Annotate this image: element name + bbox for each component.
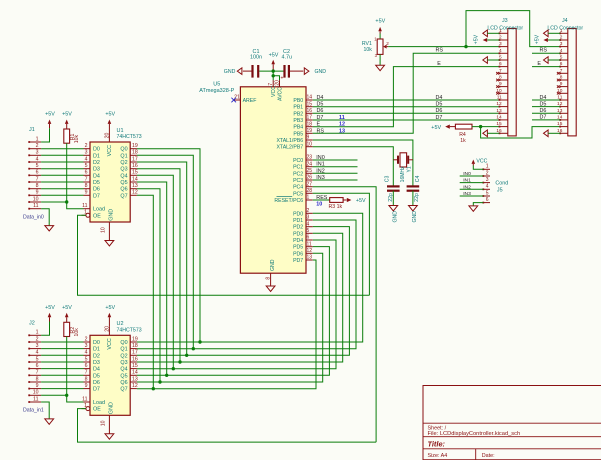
svg-text:22p: 22p: [414, 193, 420, 202]
svg-text:LCD Connector: LCD Connector: [547, 25, 583, 31]
wire PC4 net: [313, 187, 376, 442]
svg-text:6: 6: [307, 235, 310, 241]
svg-text:74HCT573: 74HCT573: [117, 134, 142, 140]
svg-text:15: 15: [307, 101, 313, 107]
svg-text:Q5: Q5: [120, 373, 127, 379]
svg-text:7: 7: [36, 370, 39, 376]
svg-text:PB5: PB5: [293, 131, 303, 137]
svg-text:6: 6: [499, 61, 502, 67]
labels IN0-IN3 (near U5): [316, 155, 324, 181]
svg-text:Q6: Q6: [120, 380, 127, 386]
ground (C4): [409, 206, 419, 223]
svg-text:C4: C4: [415, 176, 421, 183]
svg-text:10: 10: [307, 141, 313, 147]
svg-text:PC5: PC5: [293, 191, 303, 197]
svg-text:R3 1k: R3 1k: [329, 204, 343, 210]
wire RESET to R3: [313, 199, 330, 201]
svg-text:3: 3: [307, 215, 310, 221]
svg-text:8: 8: [266, 277, 272, 280]
node Data_in1: [23, 408, 44, 414]
svg-text:D4: D4: [540, 95, 547, 101]
svg-text:+: +: [281, 75, 284, 81]
svg-text:+5V: +5V: [105, 112, 115, 118]
labels IN0-IN3 (J5): [463, 171, 471, 197]
svg-text:Q0: Q0: [120, 147, 127, 153]
svg-text:+5V: +5V: [105, 305, 115, 311]
svg-text:2: 2: [307, 208, 310, 214]
wire J1 pin1 to +5V: [41, 128, 49, 142]
svg-text:RS: RS: [540, 48, 548, 54]
svg-text:4: 4: [499, 48, 502, 54]
wires data bus to U5 PD0-PD7: [137, 213, 363, 388]
svg-text:PB2: PB2: [293, 111, 303, 117]
svg-text:Data_in1: Data_in1: [23, 408, 44, 414]
capacitor C1 100n: [250, 49, 262, 77]
svg-text:PB1: PB1: [293, 105, 303, 111]
svg-text:J4: J4: [562, 18, 568, 24]
svg-text:Q5: Q5: [120, 180, 127, 186]
svg-text:D0: D0: [93, 340, 100, 346]
svg-text:D6: D6: [93, 187, 100, 193]
power +5V (R2): [62, 305, 72, 323]
svg-text:100n: 100n: [250, 55, 262, 61]
svg-text:Q7: Q7: [120, 387, 127, 393]
svg-text:J1: J1: [29, 127, 35, 133]
wire R2 to Load2 net: [66, 337, 68, 396]
gnd flag (C1): [224, 68, 242, 75]
svg-text:4: 4: [36, 350, 39, 356]
svg-text:D4: D4: [93, 367, 100, 373]
svg-text:J3: J3: [502, 18, 508, 24]
svg-text:9: 9: [36, 190, 39, 196]
svg-text:Q0: Q0: [120, 340, 127, 346]
svg-text:15: 15: [496, 121, 502, 127]
svg-text:2: 2: [36, 336, 39, 342]
junction V0 net: [464, 45, 467, 48]
svg-text:+5V: +5V: [45, 305, 55, 311]
svg-text:13: 13: [307, 255, 313, 261]
wires IN0-IN3 nets (PC0-PC3): [313, 160, 358, 180]
latch U2 74HCT573: [82, 321, 142, 434]
label 12 (blue): [339, 122, 345, 128]
svg-text:5: 5: [85, 163, 88, 169]
svg-text:D4: D4: [317, 95, 324, 101]
svg-text:6: 6: [36, 363, 39, 369]
svg-text:10k: 10k: [74, 134, 80, 143]
junction Load net (R1/J1.10): [65, 200, 68, 203]
svg-text:74HCT573: 74HCT573: [117, 328, 142, 334]
svg-text:D6: D6: [436, 108, 443, 114]
svg-text:Q7: Q7: [120, 193, 127, 199]
svg-text:+5V: +5V: [431, 125, 441, 131]
label 13 (blue): [339, 128, 345, 134]
ground (U5 GND pin 8): [266, 286, 275, 291]
svg-text:PD1: PD1: [293, 218, 303, 224]
gnd flag (J4 pin 5): [544, 57, 561, 64]
label RS (near U5): [317, 128, 325, 134]
junction +5V / VCC: [272, 69, 275, 72]
wire R3 to +5V: [343, 199, 346, 201]
wires D4-D7 nets (PB0-PB3 to J3 pins 11-14): [313, 100, 500, 120]
label RS (near J3): [436, 48, 444, 54]
svg-text:LCD Connector: LCD Connector: [487, 25, 523, 31]
svg-text:18: 18: [132, 343, 138, 349]
svg-text:Title:: Title:: [428, 439, 446, 448]
svg-text:D5: D5: [93, 373, 100, 379]
svg-text:IN1: IN1: [316, 162, 324, 168]
svg-text:PD6: PD6: [293, 251, 303, 257]
wire Load net to U1 pin 11: [67, 202, 84, 209]
svg-text:2: 2: [386, 41, 389, 46]
svg-text:11: 11: [33, 203, 38, 209]
svg-text:PB0: PB0: [293, 98, 303, 104]
wire J2 pin1 to +5V: [41, 322, 49, 336]
svg-text:4.7u: 4.7u: [282, 55, 293, 61]
svg-text:1: 1: [307, 195, 310, 201]
gnd flag (J3 pin 16): [483, 130, 500, 137]
wire U2 OE to PC4 net: [78, 409, 377, 443]
crystal Y1 16MHz: [393, 153, 413, 183]
svg-text:11: 11: [33, 396, 38, 402]
svg-text:GND: GND: [393, 211, 399, 223]
svg-text:GND: GND: [315, 69, 327, 75]
svg-text:2: 2: [85, 336, 88, 342]
svg-text:PD3: PD3: [293, 231, 303, 237]
svg-text:Data_in0: Data_in0: [23, 214, 44, 220]
svg-text:10k: 10k: [74, 328, 80, 337]
label 10 (blue): [316, 202, 322, 208]
svg-text:17: 17: [307, 115, 313, 121]
svg-text:13: 13: [339, 128, 345, 134]
ground (C3): [389, 206, 399, 223]
svg-text:GND: GND: [108, 402, 114, 414]
svg-text:1: 1: [36, 330, 39, 336]
svg-text:IN2: IN2: [463, 184, 471, 190]
svg-text:11: 11: [307, 241, 312, 247]
wire PC5 net: [313, 193, 370, 295]
svg-text:8: 8: [85, 183, 88, 189]
svg-text:D6: D6: [93, 380, 100, 386]
svg-text:7: 7: [560, 68, 563, 74]
svg-text:U1: U1: [117, 128, 124, 134]
svg-text:10: 10: [316, 202, 322, 208]
svg-text:12: 12: [132, 383, 138, 389]
svg-text:RESET/PC6: RESET/PC6: [274, 198, 303, 204]
svg-text:3: 3: [85, 343, 88, 349]
svg-text:D2: D2: [93, 353, 100, 359]
wire J1 pin10 to Load net: [41, 201, 67, 203]
wires J4 pins 11-14 D4-D7: [532, 100, 560, 120]
svg-text:3: 3: [36, 343, 39, 349]
svg-text:D5: D5: [436, 102, 443, 108]
title block: [423, 386, 601, 460]
svg-text:6: 6: [36, 170, 39, 176]
svg-text:VCC: VCC: [107, 338, 113, 349]
svg-text:9: 9: [307, 135, 310, 141]
ground (J2 pin 11): [45, 419, 54, 424]
svg-text:12: 12: [307, 248, 313, 254]
svg-text:PD0: PD0: [293, 211, 303, 217]
wire R1 to Load net: [66, 143, 68, 202]
svg-text:5: 5: [307, 228, 310, 234]
connector J4 LCD: [547, 18, 583, 136]
svg-text:RS: RS: [317, 128, 325, 134]
svg-text:GND: GND: [224, 69, 236, 75]
svg-text:11: 11: [82, 203, 87, 209]
svg-text:+5V: +5V: [45, 112, 55, 118]
svg-text:IN2: IN2: [316, 168, 324, 174]
svg-text:VCC: VCC: [476, 159, 487, 165]
svg-text:25: 25: [307, 168, 313, 174]
resistor R1 10k: [64, 129, 80, 143]
label RS (J4): [540, 48, 548, 54]
wire RV1 wiper to J3 pin3 (V0 net): [388, 46, 499, 48]
svg-text:2: 2: [486, 170, 489, 176]
power +5V (J2 pin 1): [45, 305, 55, 322]
svg-text:AVCC: AVCC: [277, 87, 283, 101]
svg-text:10: 10: [101, 420, 107, 426]
wire J4 pin6 E: [532, 66, 560, 68]
svg-text:XTAL2/PB7: XTAL2/PB7: [276, 145, 303, 151]
power +5V (U5 supply): [269, 52, 279, 71]
svg-text:7: 7: [268, 83, 274, 86]
svg-text:10: 10: [33, 390, 39, 396]
svg-text:D6: D6: [540, 108, 547, 114]
potentiometer RV1 10k: [362, 34, 389, 66]
wire RS net (PB5 to J3 pin4): [313, 53, 500, 133]
svg-text:6: 6: [85, 363, 88, 369]
svg-text:20: 20: [104, 326, 110, 332]
svg-text:18: 18: [307, 121, 313, 127]
wire VCC stem: [272, 71, 280, 80]
svg-text:D1: D1: [93, 347, 100, 353]
svg-text:4: 4: [36, 156, 39, 162]
svg-text:D5: D5: [317, 102, 324, 108]
svg-text:Q2: Q2: [120, 353, 127, 359]
power +5V (J3 pin 2): [474, 34, 500, 44]
svg-text:10: 10: [101, 227, 107, 233]
svg-text:Date:: Date:: [482, 453, 495, 459]
resistor R3 1k: [329, 198, 344, 211]
svg-text:6: 6: [85, 170, 88, 176]
svg-text:D3: D3: [93, 360, 100, 366]
svg-text:20: 20: [104, 133, 110, 139]
svg-text:GND: GND: [270, 259, 276, 271]
svg-text:5: 5: [486, 190, 489, 196]
svg-text:7: 7: [85, 176, 88, 182]
gnd flag (C2): [304, 68, 326, 75]
svg-text:11: 11: [339, 115, 345, 121]
svg-text:PD5: PD5: [293, 245, 303, 251]
svg-text:9: 9: [499, 81, 502, 87]
label 11 (blue): [339, 115, 345, 121]
power +5V (J1 pin 1): [45, 112, 55, 129]
svg-text:3: 3: [36, 150, 39, 156]
svg-text:IN0: IN0: [316, 155, 324, 161]
svg-text:Cond: Cond: [495, 181, 508, 187]
svg-text:Q1: Q1: [120, 153, 127, 159]
ground (J5 pin 6): [469, 206, 478, 211]
svg-text:12: 12: [496, 101, 502, 107]
svg-text:9: 9: [36, 383, 39, 389]
junction backlight net: [479, 125, 482, 128]
svg-text:PD4: PD4: [293, 238, 303, 244]
svg-text:Q4: Q4: [120, 173, 127, 179]
svg-text:D5: D5: [540, 101, 547, 107]
svg-text:3: 3: [486, 177, 489, 183]
svg-text:+5V: +5V: [534, 34, 540, 44]
power +5V (R3): [346, 198, 366, 204]
svg-text:9: 9: [85, 190, 88, 196]
svg-text:XTAL1/PB6: XTAL1/PB6: [276, 138, 303, 144]
svg-text:PD7: PD7: [293, 258, 303, 264]
svg-text:E: E: [317, 122, 321, 128]
svg-text:7: 7: [85, 370, 88, 376]
svg-text:D5: D5: [93, 180, 100, 186]
latch U1 74HCT573: [82, 128, 142, 241]
svg-text:9: 9: [560, 81, 563, 87]
gnd flag (J3 pin 5): [483, 57, 500, 64]
svg-text:Q3: Q3: [120, 360, 127, 366]
svg-text:27: 27: [307, 181, 313, 187]
svg-text:8: 8: [36, 376, 39, 382]
wire J5 pin6 to ground: [473, 203, 483, 206]
svg-text:D4: D4: [436, 95, 443, 101]
svg-text:5: 5: [85, 356, 88, 362]
svg-text:Q2: Q2: [120, 160, 127, 166]
svg-text:24: 24: [307, 161, 313, 167]
wire Load2 net to U2 pin 11: [67, 395, 84, 402]
power +5V (U1 VCC): [105, 112, 115, 134]
junction Load2 net (R2/J2.10): [65, 394, 68, 397]
wire E net (PB4 to J3 pin6): [313, 67, 500, 127]
power +5V (R4): [431, 125, 455, 131]
svg-text:4: 4: [486, 184, 489, 190]
power VCC (J5 pin 1): [472, 159, 488, 166]
wires U1 Q0-Q7 to data bus: [137, 149, 200, 389]
svg-text:2: 2: [85, 143, 88, 149]
power +5V (J4 pin 2): [534, 34, 560, 44]
labels D4-D7 (J4): [540, 95, 547, 121]
wire XTAL1 to crystal right: [313, 140, 413, 186]
svg-text:Load: Load: [93, 207, 105, 213]
svg-text:D7: D7: [436, 115, 443, 121]
svg-text:+5V: +5V: [62, 112, 72, 118]
svg-text:VCC: VCC: [271, 86, 277, 97]
svg-text:RES: RES: [316, 195, 327, 201]
svg-text:Q1: Q1: [120, 347, 127, 353]
svg-text:+5V: +5V: [62, 305, 72, 311]
wire V0 loop to J4 pin3: [466, 11, 560, 47]
ground (J1 pin 11): [45, 226, 54, 231]
wires J1 pins 2-9 to U1 D0-D7: [41, 149, 83, 196]
svg-text:File: LCDdisplayController.kic: File: LCDdisplayController.kicad_sch: [428, 431, 521, 437]
label E (near J3): [437, 61, 441, 67]
svg-text:Q4: Q4: [120, 367, 127, 373]
svg-text:PB4: PB4: [293, 125, 303, 131]
svg-text:PC2: PC2: [293, 171, 303, 177]
svg-text:D7: D7: [540, 115, 547, 121]
resistor R4 1k: [455, 124, 472, 144]
svg-text:7: 7: [499, 68, 502, 74]
svg-text:PD2: PD2: [293, 225, 303, 231]
svg-text:OE: OE: [93, 407, 101, 413]
svg-text:D2: D2: [93, 160, 100, 166]
svg-text:GND: GND: [108, 209, 114, 221]
svg-text:Load: Load: [93, 400, 105, 406]
svg-text:4: 4: [307, 221, 310, 227]
svg-text:J5: J5: [497, 188, 503, 194]
svg-text:D4: D4: [93, 173, 100, 179]
svg-text:Q3: Q3: [120, 167, 127, 173]
svg-text:5: 5: [36, 163, 39, 169]
wire R4 to J3 pin15: [472, 126, 500, 128]
labels D4-D7: [317, 95, 443, 121]
svg-text:1k: 1k: [460, 138, 466, 144]
power +5V (R1): [62, 112, 72, 130]
svg-text:19: 19: [307, 128, 313, 134]
svg-text:13: 13: [496, 108, 502, 114]
svg-text:9: 9: [85, 383, 88, 389]
svg-text:15: 15: [132, 363, 138, 369]
wire GND flag to C1: [243, 70, 252, 72]
svg-text:+5V: +5V: [474, 34, 480, 44]
junctions U1 outputs on bus rows: [152, 340, 202, 390]
svg-text:12: 12: [339, 122, 345, 128]
wires J2 pins 2-9 to U2 D0-D7: [41, 342, 83, 389]
capacitor C2 4.7u: [281, 49, 293, 81]
svg-text:4: 4: [85, 156, 88, 162]
svg-text:21: 21: [234, 95, 240, 101]
connector J3 LCD: [487, 18, 523, 136]
svg-text:Size: A4: Size: A4: [428, 453, 448, 459]
svg-text:D7: D7: [93, 387, 100, 393]
svg-text:11: 11: [82, 396, 87, 402]
svg-text:23: 23: [307, 155, 313, 161]
svg-text:C3: C3: [385, 176, 391, 183]
svg-text:8: 8: [560, 75, 563, 81]
svg-text:20: 20: [274, 80, 280, 86]
svg-text:E: E: [437, 61, 441, 67]
capacitor C4 22p: [407, 176, 421, 206]
svg-text:3: 3: [85, 150, 88, 156]
svg-text:GND: GND: [412, 211, 418, 223]
svg-text:16: 16: [307, 108, 313, 114]
svg-text:D0: D0: [93, 147, 100, 153]
svg-text:IN3: IN3: [463, 191, 471, 197]
svg-text:PC3: PC3: [293, 178, 303, 184]
wire C2 to GND flag: [290, 70, 303, 72]
label E (near U5): [317, 122, 321, 128]
svg-text:3: 3: [560, 41, 563, 47]
gnd flag (J3 pin 1): [483, 30, 500, 37]
connector J2: [28, 320, 41, 403]
label E (J4): [537, 61, 541, 67]
svg-text:5: 5: [36, 356, 39, 362]
wire backlight net to J4 pin15: [481, 127, 561, 138]
svg-text:10: 10: [33, 196, 39, 202]
svg-text:28: 28: [307, 188, 313, 194]
svg-text:VCC: VCC: [107, 145, 113, 156]
capacitor C3 22p: [385, 176, 400, 206]
resistor R2 10k: [64, 322, 80, 336]
svg-text:+5V: +5V: [375, 18, 385, 24]
svg-text:8: 8: [85, 376, 88, 382]
wire J5 pin1 to VCC: [473, 166, 483, 170]
svg-text:14: 14: [307, 95, 313, 101]
svg-text:2: 2: [36, 143, 39, 149]
svg-text:14: 14: [496, 114, 502, 120]
